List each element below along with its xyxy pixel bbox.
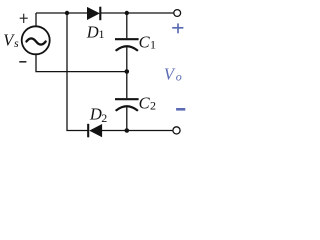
svg-text:s: s bbox=[14, 36, 19, 50]
node B junction dot (top of C1) bbox=[125, 11, 129, 15]
label C1 bbox=[139, 33, 156, 52]
svg-text:C: C bbox=[139, 33, 151, 52]
svg-text:C: C bbox=[139, 93, 151, 112]
label C2 bbox=[139, 93, 156, 112]
output + sign (blue) bbox=[172, 23, 183, 33]
svg-text:2: 2 bbox=[101, 111, 107, 125]
terminal + output (open circle) bbox=[174, 10, 181, 17]
label Vs bbox=[3, 31, 19, 50]
capacitor C1 bbox=[115, 39, 139, 50]
label D2 bbox=[89, 105, 107, 125]
wire from node B down to C1 top plate bbox=[126, 13, 128, 38]
wire bottom from D2 anode to - output terminal bbox=[102, 130, 174, 132]
diode D1 bbox=[87, 7, 100, 21]
polarity - of source bbox=[19, 61, 26, 63]
svg-text:1: 1 bbox=[150, 38, 156, 52]
svg-text:D: D bbox=[89, 105, 102, 124]
diode D2 bbox=[88, 124, 102, 138]
wire from C2 bottom plate to bottom rail bbox=[126, 107, 128, 130]
svg-text:V: V bbox=[164, 65, 176, 84]
svg-text:o: o bbox=[176, 69, 182, 83]
wire source top lead bbox=[35, 13, 37, 27]
capacitor C2 bbox=[115, 99, 139, 110]
wire source bottom lead to C1-C2 midpoint bbox=[36, 54, 127, 71]
source Vs (ac source circle with sine) bbox=[22, 26, 50, 54]
polarity + of source bbox=[20, 14, 28, 23]
label Vo (blue) bbox=[164, 65, 182, 84]
wire top from D1 cathode to + output terminal bbox=[101, 12, 174, 14]
svg-text:2: 2 bbox=[150, 99, 156, 113]
node C junction dot (C1-C2 midpoint) bbox=[125, 69, 130, 74]
node A junction dot (top left) bbox=[65, 11, 69, 15]
svg-text:1: 1 bbox=[99, 27, 105, 41]
svg-text:D: D bbox=[86, 22, 99, 41]
label D1 bbox=[86, 22, 105, 41]
output - sign (blue) bbox=[176, 108, 185, 111]
wire top from source to D1 anode bbox=[36, 12, 88, 14]
wire left branch from node A down to D2 cathode bbox=[67, 13, 88, 131]
node D junction dot (bottom of C2) bbox=[125, 128, 130, 133]
wire from C1 bottom plate to C2 top plate bbox=[126, 47, 128, 98]
terminal - output (open circle) bbox=[173, 127, 180, 134]
